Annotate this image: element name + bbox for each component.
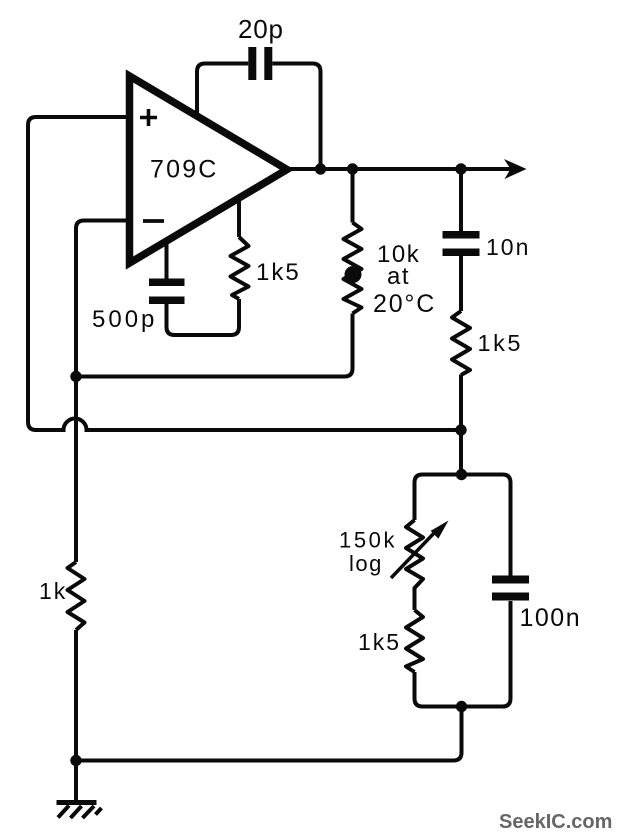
capacitor C 20p plates: [248, 47, 272, 80]
svg-text:709C: 709C: [150, 156, 219, 184]
ground symbol: [57, 800, 102, 818]
wire output from op-amp apex: [287, 167, 511, 171]
output arrow head: [504, 159, 527, 179]
op-amp U1 709C triangle: [130, 76, 288, 263]
wire non-inverting input and left loop to node at (461,430) with hop over vertical wire: [28, 117, 461, 430]
junction node dot at thermistor branch: [347, 163, 358, 174]
wire parallel box top rail and right side down to 100n: [415, 475, 511, 576]
svg-text:1k5: 1k5: [256, 259, 301, 286]
svg-text:20°C: 20°C: [373, 290, 436, 318]
svg-text:1k: 1k: [39, 578, 67, 604]
capacitor 500p stub from op-amp bottom edge: [165, 240, 169, 279]
wire from box bottom down and left to ground node: [76, 707, 462, 761]
svg-text:1k5: 1k5: [478, 330, 523, 356]
svg-text:at: at: [387, 263, 410, 290]
wire feedback loop left segment with 20p gap: [197, 64, 321, 170]
potentiometer wiper arrow shaft: [391, 530, 437, 578]
potentiometer wiper arrow head: [431, 521, 449, 539]
wire 500p bottom to left 1k5 bottom: [167, 299, 240, 335]
svg-text:10n: 10n: [486, 234, 530, 260]
op-amp U1 inverting input - symbol: [143, 219, 164, 223]
resistor 1k5 left zigzag: [231, 237, 249, 299]
junction node dot at box top: [456, 469, 467, 480]
svg-text:150k: 150k: [339, 528, 397, 553]
wire parallel box bottom rail and right side up to 100n: [415, 601, 511, 707]
resistor 1k5 box zigzag: [406, 610, 423, 672]
label 10k at 20C: [373, 241, 436, 318]
junction node dot at 1k5/loop node: [455, 424, 466, 435]
svg-text:log: log: [349, 551, 383, 576]
capacitor 10n plates: [443, 231, 480, 256]
capacitor 100n plates: [492, 576, 529, 601]
junction node dot at inverting node: [70, 371, 81, 382]
capacitor 500p plates: [149, 279, 185, 305]
label 150k log: [339, 528, 397, 577]
junction node dot at 10n branch: [455, 163, 466, 174]
junction node dot at ground: [70, 755, 81, 766]
svg-text:100n: 100n: [520, 604, 582, 632]
thermistor 10k zigzag: [344, 223, 362, 314]
junction node dot at feedback/output: [315, 163, 326, 174]
svg-text:20p: 20p: [238, 14, 284, 44]
thermistor 10k branch lead: [351, 169, 355, 223]
resistor 1k: [68, 562, 85, 630]
svg-text:SeekIC.com: SeekIC.com: [499, 811, 612, 833]
svg-text:500p: 500p: [92, 306, 157, 333]
thermistor 10k body dot: [345, 266, 362, 283]
resistor 1k5 left lead from op-amp bottom edge: [237, 197, 241, 237]
op-amp U1 non-inverting input + symbol: [140, 109, 157, 126]
wire inverting input horizontal and long vertical down to ground: [76, 221, 131, 801]
junction node dot at box bottom: [456, 701, 467, 712]
svg-text:1k5: 1k5: [358, 629, 401, 655]
wire mid horizontal from inverting node to thermistor bottom: [76, 314, 353, 377]
wire 10n branch vertical with 1k5 down to box top: [459, 169, 463, 475]
resistor 1k5 right zigzag: [452, 311, 470, 375]
potentiometer 150k log zigzag: [406, 520, 423, 610]
